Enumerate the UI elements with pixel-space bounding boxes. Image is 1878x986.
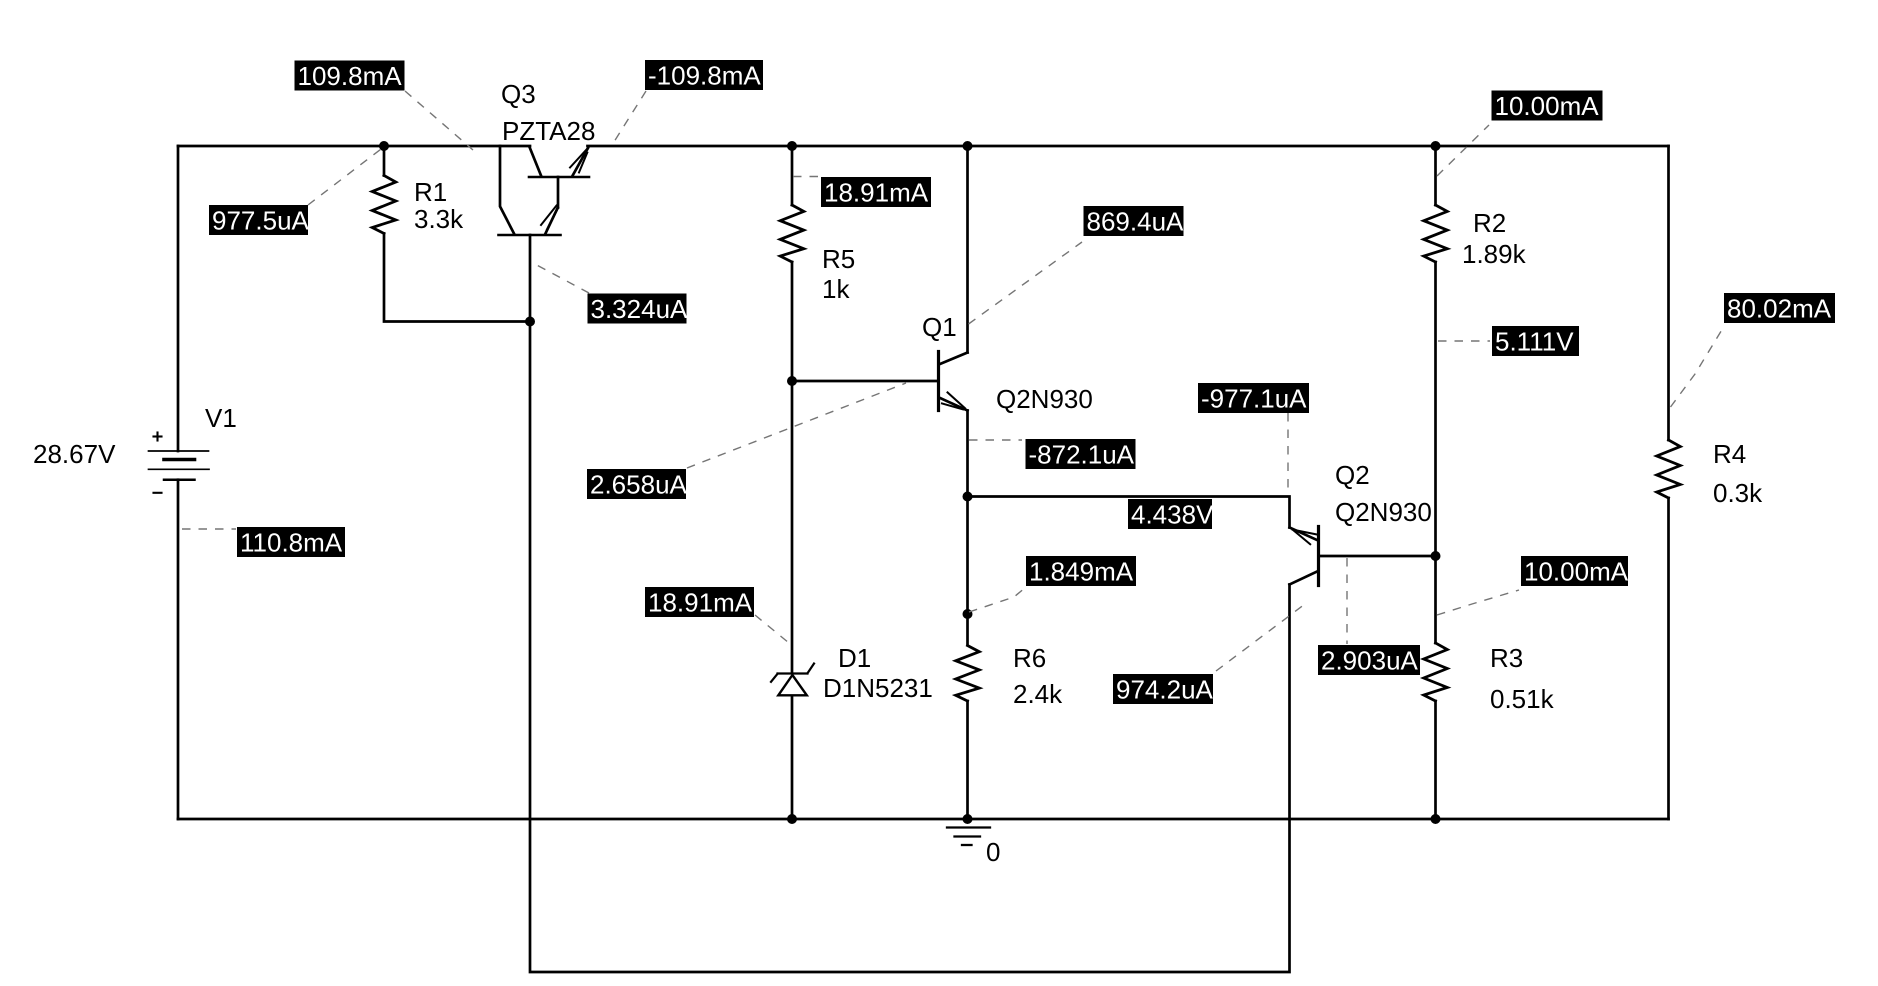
svg-text:1.89k: 1.89k xyxy=(1462,239,1527,269)
svg-text:109.8mA: 109.8mA xyxy=(298,61,403,91)
svg-text:80.02mA: 80.02mA xyxy=(1727,294,1832,324)
svg-text:110.8mA: 110.8mA xyxy=(240,528,343,558)
svg-text:R4: R4 xyxy=(1713,439,1746,469)
svg-text:R6: R6 xyxy=(1013,643,1046,673)
svg-text:Q1: Q1 xyxy=(922,312,957,342)
svg-text:0.3k: 0.3k xyxy=(1713,478,1763,508)
svg-text:PZTA28: PZTA28 xyxy=(502,116,595,146)
svg-text:Q2N930: Q2N930 xyxy=(996,384,1093,414)
svg-text:Q2: Q2 xyxy=(1335,460,1370,490)
svg-text:-977.1uA: -977.1uA xyxy=(1201,384,1307,414)
svg-text:974.2uA: 974.2uA xyxy=(1116,675,1214,705)
svg-text:18.91mA: 18.91mA xyxy=(824,178,929,208)
svg-text:D1: D1 xyxy=(838,643,871,673)
svg-text:18.91mA: 18.91mA xyxy=(648,588,753,618)
svg-text:2.903uA: 2.903uA xyxy=(1321,646,1419,676)
svg-text:R1: R1 xyxy=(414,177,447,207)
svg-text:977.5uA: 977.5uA xyxy=(212,206,310,236)
svg-text:D1N5231: D1N5231 xyxy=(823,673,933,703)
svg-text:Q3: Q3 xyxy=(501,79,536,109)
svg-text:-872.1uA: -872.1uA xyxy=(1029,440,1135,470)
svg-text:1.849mA: 1.849mA xyxy=(1029,557,1134,587)
svg-text:0: 0 xyxy=(986,837,1000,867)
svg-text:1k: 1k xyxy=(822,274,850,304)
svg-text:5.111V: 5.111V xyxy=(1495,327,1574,357)
svg-text:28.67V: 28.67V xyxy=(33,439,116,469)
svg-text:R3: R3 xyxy=(1490,643,1523,673)
svg-text:R2: R2 xyxy=(1473,208,1506,238)
svg-text:2.658uA: 2.658uA xyxy=(590,470,688,500)
svg-text:2.4k: 2.4k xyxy=(1013,679,1063,709)
svg-text:3.3k: 3.3k xyxy=(414,204,464,234)
svg-text:0.51k: 0.51k xyxy=(1490,684,1555,714)
svg-text:10.00mA: 10.00mA xyxy=(1524,557,1629,587)
svg-text:-109.8mA: -109.8mA xyxy=(648,61,761,91)
svg-text:R5: R5 xyxy=(822,244,855,274)
svg-text:10.00mA: 10.00mA xyxy=(1495,91,1600,121)
svg-text:4.438V: 4.438V xyxy=(1131,500,1214,530)
svg-text:3.324uA: 3.324uA xyxy=(591,294,689,324)
svg-text:869.4uA: 869.4uA xyxy=(1087,207,1185,237)
svg-text:V1: V1 xyxy=(205,403,237,433)
svg-text:Q2N930: Q2N930 xyxy=(1335,497,1432,527)
